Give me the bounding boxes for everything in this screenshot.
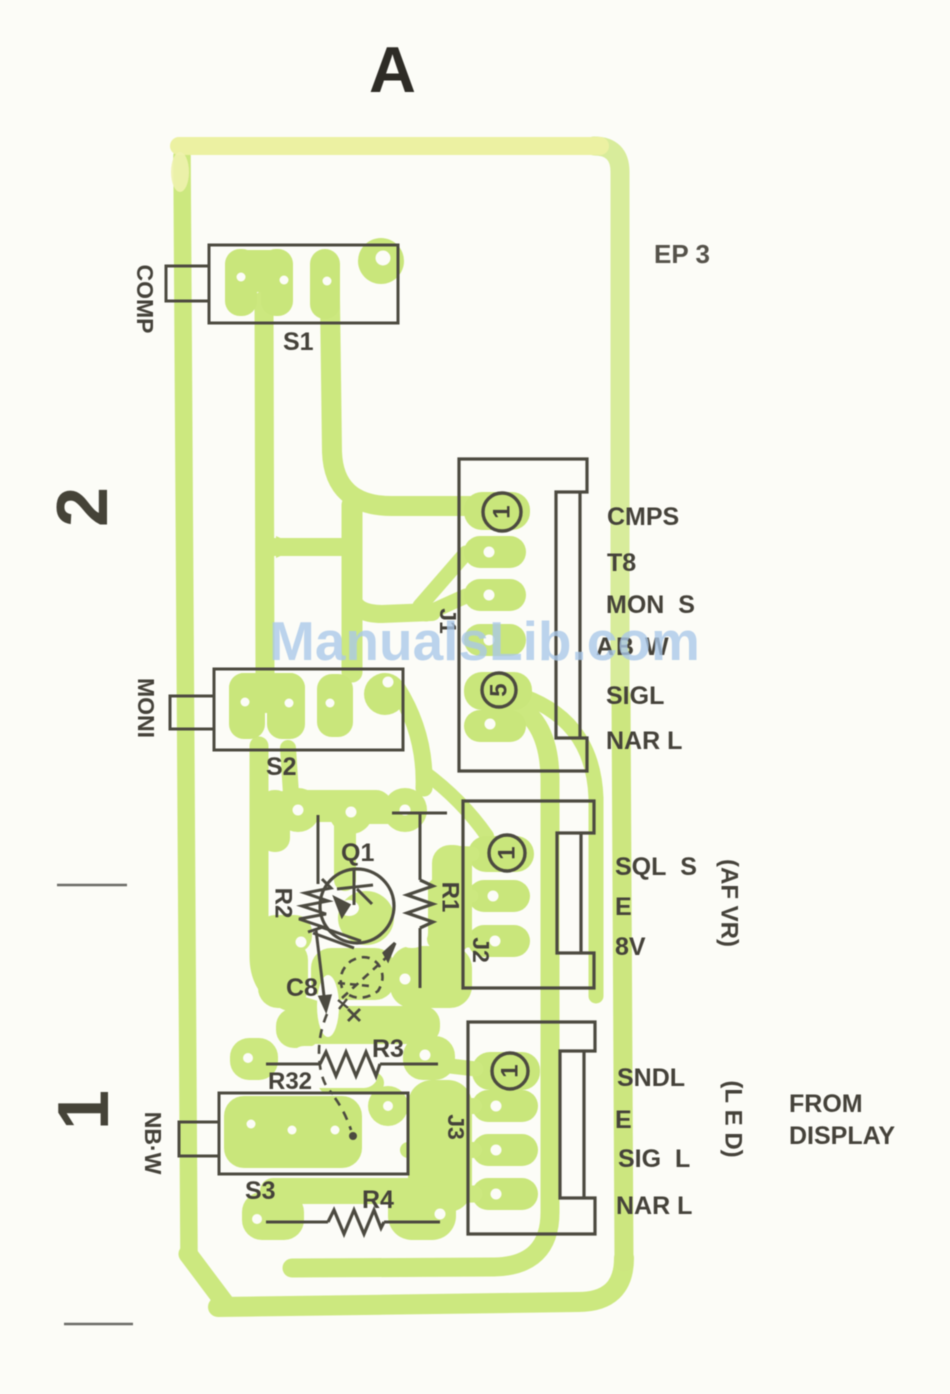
- svg-text:1: 1: [494, 846, 521, 859]
- wire arm J1 pin3 diagonal: [426, 596, 466, 614]
- transistor Q1 base bar: [337, 885, 373, 889]
- connector J3 housing: [468, 1022, 595, 1234]
- J1 pad pin2 capsule: [464, 536, 526, 568]
- connector J2 pin1 circle: [489, 835, 525, 871]
- svg-text:T8: T8: [607, 549, 636, 577]
- S1 corner round pad: [358, 238, 404, 284]
- J1 pad hole extra: [485, 719, 496, 730]
- svg-text:E: E: [615, 1106, 632, 1134]
- resistor R1 top lead: [419, 813, 422, 880]
- PCB board outline: bottom border trace: [218, 1258, 624, 1307]
- S2 pad cluster right lobe: [267, 673, 305, 739]
- resistor R4 left lead: [266, 1221, 328, 1224]
- svg-text:(AF VR): (AF VR): [716, 859, 743, 947]
- R3 right pad: [403, 1036, 455, 1080]
- S3 right-of-box patch: [408, 1080, 472, 1212]
- R3 left pad: [230, 1038, 278, 1080]
- wire dashed inside S3: [335, 1098, 351, 1130]
- connector J1 key bar: [578, 492, 581, 738]
- capacitor C8 dashed bar: [338, 983, 370, 986]
- svg-text:R32: R32: [268, 1068, 312, 1095]
- J3 pad pin3 capsule: [472, 1134, 538, 1166]
- R3 left pad hole: [243, 1053, 253, 1063]
- svg-text:EP 3: EP 3: [654, 239, 710, 269]
- svg-text:NAR L: NAR L: [606, 727, 682, 755]
- wire trace B: outer arc right of J2: [513, 693, 596, 996]
- mid pour pad hole bottom left: [296, 937, 307, 948]
- mid pour white bay around R1: [396, 862, 428, 948]
- wire W1 upper lead: [317, 815, 320, 884]
- switch S2 lever: [170, 696, 214, 729]
- mid pour top band: [272, 790, 392, 822]
- connector J3 key bar: [582, 1051, 585, 1198]
- junction flare node: [276, 536, 300, 558]
- white channel along W1 wire: [317, 975, 339, 1037]
- mid pour pad hole 3: [400, 805, 411, 816]
- switch S3 body: [219, 1093, 408, 1174]
- resistor R1 zigzag: [407, 880, 433, 928]
- svg-text:C8: C8: [286, 974, 318, 1002]
- wire W1 dashed continuation: [319, 1014, 333, 1094]
- R4 right pad hole: [435, 1209, 446, 1220]
- resistor R1 bottom lead: [419, 928, 422, 988]
- svg-text:COMP: COMP: [132, 265, 158, 334]
- mid pour round pad 2: [329, 790, 373, 834]
- wire trace T1: S1 pad1 down to S2: [264, 300, 265, 676]
- mid pour top band right extension: [350, 798, 410, 824]
- PCB board outline: bottom-left bevel: [188, 1254, 227, 1306]
- mid pour right lobe: [432, 845, 472, 953]
- S3 pad hole b: [288, 1126, 297, 1135]
- S1 corner pad hole: [376, 251, 391, 266]
- svg-text:E: E: [615, 893, 632, 921]
- svg-text:R2: R2: [270, 888, 297, 919]
- S2 pad C hole: [383, 677, 394, 688]
- PCB board outline: right border trace: [594, 146, 620, 700]
- svg-text:NB·W: NB·W: [140, 1112, 166, 1175]
- resistor R4 right lead: [384, 1221, 440, 1224]
- svg-text:Q1: Q1: [341, 839, 374, 867]
- J2 pad pin1 capsule: [468, 836, 534, 872]
- J3 pad pin2 capsule: [472, 1090, 538, 1122]
- S3 pour band below S3 left blob: [242, 1192, 304, 1240]
- S1 pad cluster left lobe: [225, 249, 257, 316]
- J3 arm pin2: [408, 1098, 474, 1114]
- S2 pad hole a: [241, 698, 250, 707]
- svg-text:A: A: [369, 33, 416, 106]
- registration line upper left: [57, 884, 127, 887]
- svg-text:2: 2: [43, 487, 123, 527]
- wire trace T4: hangs from T2 curve down to S2 pad B: [342, 505, 363, 672]
- S1 pad cluster merged top: [225, 250, 293, 292]
- PCB board outline: right border lower part: [621, 696, 624, 1262]
- svg-text:S2: S2: [266, 753, 297, 781]
- mid pour neck into Q1: [334, 824, 356, 880]
- J3 pad hole pin4: [491, 1189, 502, 1200]
- wire arm T4 to J1 lower pads: [352, 596, 432, 614]
- top-left corner yellow smudge: [171, 152, 189, 192]
- S3 pour band below S3 right blob: [388, 1180, 456, 1240]
- capacitor C8 arrowhead: [384, 943, 395, 960]
- S3 top right pad hole: [383, 1101, 393, 1111]
- J3 pad hole pin3: [491, 1145, 502, 1156]
- svg-text:R4: R4: [362, 1186, 394, 1214]
- transistor Q1 collector cross vertical: [353, 869, 356, 905]
- mid pour pad hole 1: [293, 805, 304, 816]
- transistor Q1 emitter lead double line: [318, 926, 361, 941]
- wire W1 arrowhead: [320, 996, 330, 1010]
- J1 pad pin3 capsule: [464, 579, 526, 611]
- mid pour pad hole 2: [346, 807, 357, 818]
- J3 pad pin4 capsule: [472, 1178, 538, 1210]
- capacitor C8 x mark: [348, 1009, 360, 1021]
- mid pour pad hole bottom right: [400, 974, 411, 985]
- svg-text:CMPS: CMPS: [607, 503, 679, 531]
- svg-text:1: 1: [44, 1090, 124, 1130]
- mid pour bottom-center patch: [311, 948, 395, 1000]
- svg-text:SNDL: SNDL: [617, 1064, 685, 1092]
- svg-text:S3: S3: [245, 1177, 276, 1205]
- S3 pad hole a: [247, 1120, 256, 1129]
- connector J1 housing: [459, 459, 587, 771]
- J1 pad pin5 capsule: [464, 672, 532, 710]
- svg-text:1: 1: [489, 505, 516, 518]
- capacitor C8 dashed spoke: [342, 956, 388, 998]
- S3 pad top right corner: [368, 1086, 408, 1126]
- J1 pad hole pin4: [484, 635, 495, 646]
- svg-text:J3: J3: [443, 1114, 469, 1140]
- J3 pad hole pin2: [491, 1101, 502, 1112]
- J1 pad extra capsule: [464, 710, 526, 742]
- transistor Q1 circle: [320, 869, 394, 943]
- svg-text:ManualsLib.com: ManualsLib.com: [269, 610, 700, 672]
- mid pour bottom-left column: [258, 940, 308, 1008]
- R4 left pad hole: [252, 1214, 262, 1224]
- connector J3 pin1 circle: [492, 1053, 528, 1089]
- S2 pad C round: [364, 673, 406, 715]
- resistor R3 left lead: [266, 1063, 320, 1066]
- mid pour round pad 3: [383, 788, 427, 832]
- wire trace T1d: below S2 down then curve right into S3 pour: [259, 746, 315, 1010]
- PCB board outline: top border trace: [179, 137, 600, 155]
- R4 right round pad: [403, 1186, 447, 1230]
- S3 pad hole c: [331, 1126, 340, 1135]
- wire band1: from S2 pad C down to pad row: [397, 688, 424, 788]
- wire stub from S2 bottom to pad: [288, 748, 291, 794]
- wire arm J1 pin2 diagonal: [420, 553, 466, 606]
- svg-text:SIG L: SIG L: [618, 1145, 690, 1173]
- switch S1 lever: [166, 266, 209, 301]
- resistor R3 right lead: [380, 1063, 438, 1066]
- J2 pad hole pin3: [490, 936, 501, 947]
- J2 pad pin3 capsule: [468, 925, 530, 957]
- svg-text:R1: R1: [437, 882, 464, 913]
- J3 arm pin3: [408, 1142, 474, 1158]
- svg-text:R3: R3: [372, 1035, 404, 1063]
- mid pour bottom-right patch: [390, 946, 472, 1008]
- svg-text:8V: 8V: [615, 933, 646, 961]
- wire trace T2: S1 pad3 curving right to J1 pin1: [330, 300, 470, 506]
- J1 pad hole pin3: [484, 590, 495, 601]
- junction arm T1 to T4: [265, 538, 352, 556]
- PCB board outline: left border trace: [182, 156, 189, 1256]
- S3 pour left small blob: [276, 1008, 322, 1048]
- svg-text:S1: S1: [283, 328, 314, 356]
- S2 pad hole c: [326, 699, 335, 708]
- connector J2 housing: [463, 801, 594, 988]
- S1 pad hole c: [323, 277, 332, 286]
- white notch inside Q1 blob: [339, 900, 359, 916]
- wire dashed end dot: [349, 1132, 357, 1140]
- wire trace T5: from J1 pin5 down right side through J3 to bottom inner trace: [292, 700, 550, 1268]
- svg-text:SQL S: SQL S: [615, 853, 697, 881]
- S2 pad cluster left lobe: [229, 673, 265, 739]
- S1 pad hole a: [237, 273, 246, 282]
- S3 pour band below S3 top strip: [260, 1178, 440, 1204]
- S1 pad 3: [310, 249, 340, 319]
- S3 interior pad cluster: [224, 1096, 362, 1168]
- switch S2 body: [214, 669, 403, 750]
- J1 pad pin4 capsule: [464, 624, 526, 656]
- resistor R2 zigzag: [299, 879, 331, 932]
- svg-text:J2: J2: [468, 937, 494, 963]
- svg-text:FROM: FROM: [789, 1090, 863, 1118]
- resistor R3 zigzag: [320, 1052, 380, 1076]
- J2 pad pin2 capsule: [468, 880, 530, 912]
- capacitor C8 dashed outline: [341, 957, 383, 998]
- registration line lower left: [64, 1323, 133, 1326]
- connector J2 key bar: [579, 833, 582, 953]
- connector J1 pin1 circle: [483, 493, 521, 531]
- J2 arm pin3: [455, 935, 472, 948]
- mid pour round pad 1: [276, 788, 320, 832]
- wire W1 lower lead with arrow: [316, 930, 324, 996]
- S2 pad B: [317, 674, 353, 737]
- transistor Q1 collector diagonal: [357, 889, 372, 904]
- mid pour blob inside Q1: [338, 891, 394, 945]
- svg-text:1: 1: [497, 1064, 524, 1077]
- wire band1 branch to J2 pin1: [424, 772, 487, 836]
- J2 arm pin1: [448, 853, 472, 854]
- switch S1 body: [209, 245, 398, 323]
- S3 pour band above S3: [300, 1006, 440, 1044]
- resistor R4 zigzag: [328, 1210, 384, 1234]
- J1 pad pin1 capsule: [464, 492, 530, 530]
- switch S3 lever: [179, 1122, 219, 1156]
- svg-text:NAR L: NAR L: [616, 1192, 692, 1220]
- svg-text:DISPLAY: DISPLAY: [789, 1122, 895, 1150]
- transistor Q1 emitter arrow: [335, 898, 349, 916]
- mid pour bottom-left pad blob: [258, 915, 312, 953]
- S1 pad cluster right lobe: [261, 249, 293, 316]
- J2 arm pin2: [452, 896, 472, 897]
- S1 pad hole b: [280, 276, 289, 285]
- S2 pad cluster merged top: [229, 673, 305, 713]
- white bay below S3 around R4: [311, 1217, 383, 1243]
- J3 arm pin4: [402, 1194, 474, 1196]
- svg-text:SIGL: SIGL: [606, 682, 664, 710]
- J3 arm pin1: [450, 1066, 476, 1069]
- J2 pad hole pin2: [488, 891, 499, 902]
- svg-text:5: 5: [486, 683, 513, 696]
- S3 pour upper connector patch: [318, 1072, 384, 1094]
- connector J1 pin5 circle: [482, 673, 516, 707]
- J3 pad pin1 capsule: [472, 1052, 540, 1090]
- svg-text:MONI: MONI: [133, 678, 159, 738]
- svg-text:(L E D): (L E D): [720, 1080, 747, 1157]
- S2 pad hole b: [285, 699, 294, 708]
- capacitor C8 x mark small: [338, 999, 348, 1009]
- resistor R1 top tee line: [392, 812, 447, 815]
- white gap around R3 zigzag: [290, 1046, 378, 1088]
- mid pour left lobe: [260, 790, 290, 852]
- mid pour right lobe inner bump: [427, 878, 449, 950]
- J1 pad hole pin2: [484, 547, 495, 558]
- R3 right pad hole: [420, 1050, 431, 1061]
